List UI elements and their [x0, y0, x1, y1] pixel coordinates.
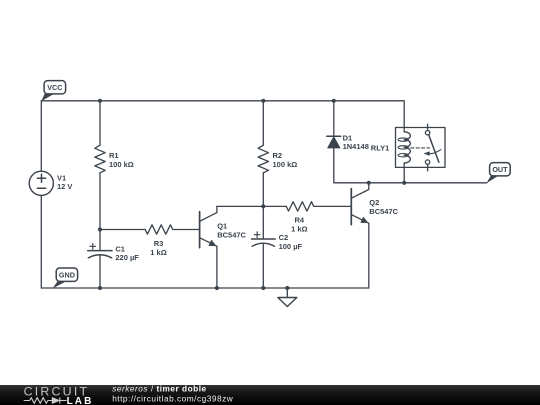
svg-text:R1: R1: [109, 151, 119, 160]
wire D1 bottom to OUT node: [334, 148, 487, 183]
diode D1: [327, 136, 341, 148]
junction R3 / C1 node: [98, 227, 102, 231]
wire left rail upper: [40, 101, 42, 171]
node OUT flag: [486, 163, 510, 184]
svg-text:1N4148: 1N4148: [343, 142, 369, 151]
wire C1 bottom lead: [99, 255, 101, 288]
junction Q1 emitter on GND rail: [215, 286, 219, 290]
svg-text:VCC: VCC: [47, 83, 62, 92]
resistor R4: [286, 202, 313, 211]
svg-text:R4: R4: [295, 215, 305, 224]
svg-text:R3: R3: [154, 239, 164, 248]
junction R2 top on VCC rail: [261, 99, 265, 103]
wire R2 bottom lead: [262, 173, 264, 207]
svg-text:LAB: LAB: [67, 396, 94, 405]
svg-text:12 V: 12 V: [57, 182, 72, 191]
junction D1 top on VCC rail: [332, 99, 336, 103]
junction ground symbol on GND rail: [285, 286, 289, 290]
svg-text:1 kΩ: 1 kΩ: [150, 248, 166, 257]
svg-text:1 kΩ: 1 kΩ: [291, 224, 307, 233]
svg-text:100 kΩ: 100 kΩ: [109, 160, 134, 169]
transistor Q1: [200, 206, 217, 247]
svg-text:BC547C: BC547C: [369, 207, 398, 216]
wire Q1 emitter to rail: [216, 246, 218, 288]
wire left rail lower: [40, 195, 42, 288]
svg-text:http://circuitlab.com/cg398zw: http://circuitlab.com/cg398zw: [112, 394, 234, 404]
circuitlab logo: [24, 385, 94, 405]
resistor R3: [145, 225, 173, 234]
svg-text:100 µF: 100 µF: [279, 242, 303, 251]
voltage source V1: [29, 171, 53, 195]
svg-text:100 kΩ: 100 kΩ: [273, 160, 298, 169]
wire base R3 left: [100, 229, 145, 231]
wire R2 top lead: [262, 101, 264, 145]
wire C2 bottom lead: [262, 243, 264, 288]
transistor Q2: [351, 183, 369, 225]
svg-text:serkeros / timer doble: serkeros / timer doble: [112, 384, 206, 394]
wire R1 bottom to C1: [99, 173, 101, 251]
wire relay coil to OUT wire: [403, 167, 405, 182]
footer bar: [0, 384, 540, 405]
resistor R1: [95, 145, 105, 173]
wire R1 top lead: [99, 101, 101, 145]
junction R1 top on VCC rail: [98, 99, 102, 103]
svg-text:C2: C2: [279, 233, 289, 242]
resistor R2: [258, 145, 268, 173]
capacitor C2: [252, 232, 276, 246]
junction C2 bottom on GND rail: [261, 286, 265, 290]
svg-text:Q2: Q2: [369, 198, 379, 207]
junction Q2 collector node: [367, 181, 371, 185]
node GND flag: [53, 268, 78, 288]
svg-text:Q1: Q1: [217, 221, 227, 230]
junction C1 bottom on GND rail: [98, 286, 102, 290]
node VCC flag: [41, 81, 65, 102]
wire R4 to Q2 base: [314, 205, 352, 207]
svg-text:220 µF: 220 µF: [115, 253, 139, 262]
ground: [278, 288, 297, 307]
svg-text:RLY1: RLY1: [371, 144, 389, 153]
svg-text:C1: C1: [115, 245, 125, 254]
wire R3 to Q1 base: [173, 229, 200, 231]
svg-text:OUT: OUT: [492, 165, 508, 174]
labels: [57, 134, 399, 263]
junction R2 / C2 / R4 node: [261, 204, 265, 208]
wire bottom rail GND: [41, 287, 369, 289]
svg-text:R2: R2: [273, 151, 283, 160]
svg-text:BC547C: BC547C: [217, 230, 246, 239]
wire D1 top lead: [333, 101, 335, 136]
svg-text:GND: GND: [59, 270, 75, 279]
wire Q2 emitter to rail: [368, 223, 370, 288]
capacitor C1: [88, 244, 112, 258]
wire Q1 collector bus: [217, 205, 286, 207]
wire top rail VCC: [41, 101, 404, 128]
wire C2 top lead: [262, 206, 264, 239]
junction relay coil / OUT node: [402, 181, 406, 185]
relay RLY1: [396, 124, 446, 171]
